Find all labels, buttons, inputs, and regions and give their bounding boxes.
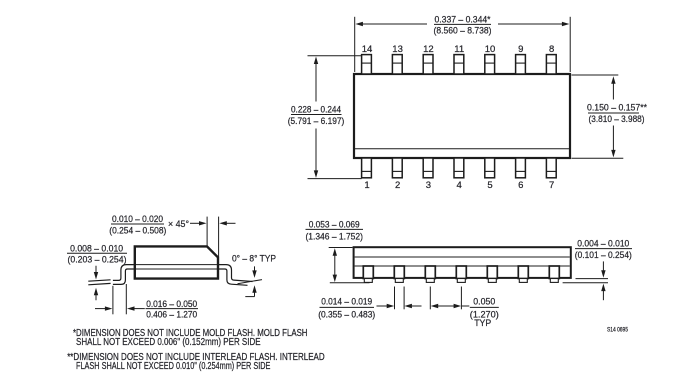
svg-text:0.008 – 0.010: 0.008 – 0.010 <box>70 242 123 253</box>
svg-text:9: 9 <box>518 44 523 55</box>
height dimension 0.053-0.069 <box>329 248 370 283</box>
svg-text:8: 8 <box>549 44 554 55</box>
svg-text:11: 11 <box>454 44 464 55</box>
svg-text:0.406 – 1.270: 0.406 – 1.270 <box>146 309 197 320</box>
footnotes <box>67 328 325 372</box>
right dimension 0.150-0.157 <box>572 75 624 158</box>
svg-text:3: 3 <box>426 180 431 191</box>
svg-text:12: 12 <box>423 44 434 55</box>
package body (top view) <box>354 74 570 158</box>
pin numbers bottom row <box>364 180 554 191</box>
svg-text:(0.101 – 0.254): (0.101 – 0.254) <box>575 249 632 260</box>
left dimension 0.228-0.244 <box>308 56 362 179</box>
top pins 14..8 <box>362 55 557 74</box>
package body (side view) <box>354 247 571 278</box>
svg-text:0° – 8° TYP: 0° – 8° TYP <box>232 254 276 264</box>
svg-text:10: 10 <box>485 44 496 55</box>
svg-text:0.016 – 0.050: 0.016 – 0.050 <box>146 298 197 309</box>
top width dimension 0.337-0.344 <box>355 17 571 72</box>
bottom pins 1..7 <box>362 158 557 178</box>
svg-text:(3.810 – 3.988): (3.810 – 3.988) <box>589 113 645 124</box>
svg-text:S14 0695: S14 0695 <box>607 327 629 333</box>
svg-text:SHALL NOT EXCEED 0.006" (0.152: SHALL NOT EXCEED 0.006" (0.152mm) PER SI… <box>76 337 261 348</box>
svg-text:0.228 – 0.244: 0.228 – 0.244 <box>291 103 341 114</box>
svg-text:(0.355 – 0.483): (0.355 – 0.483) <box>318 308 375 319</box>
tilted foot segment (0-8 deg) <box>88 280 110 281</box>
svg-text:FLASH SHALL NOT EXCEED 0.010": FLASH SHALL NOT EXCEED 0.010" (0.254mm) … <box>76 361 271 372</box>
lead plane lines through body <box>135 264 218 266</box>
svg-text:2: 2 <box>395 180 400 191</box>
body cross-section with 45deg chamfer <box>135 246 218 278</box>
svg-text:(8.560 – 8.738): (8.560 – 8.738) <box>434 25 492 36</box>
svg-text:0.050: 0.050 <box>473 295 495 306</box>
svg-text:4: 4 <box>457 180 462 191</box>
svg-text:TYP: TYP <box>474 317 491 328</box>
lead width dimension 0.014-0.019 <box>377 287 422 310</box>
svg-text:5: 5 <box>487 180 492 191</box>
standoff dimension 0.004-0.010 <box>563 261 608 300</box>
svg-text:× 45°: × 45° <box>168 218 189 229</box>
svg-text:0.004 – 0.010: 0.004 – 0.010 <box>577 238 629 249</box>
svg-text:0.014 – 0.019: 0.014 – 0.019 <box>321 295 372 306</box>
foot length dimension 0.016-0.050 <box>95 284 145 314</box>
side view leads <box>363 266 559 282</box>
pitch dimension 0.050 TYP <box>430 287 469 310</box>
right lead (gull wing) <box>218 265 262 286</box>
svg-text:(5.791 – 6.197): (5.791 – 6.197) <box>288 115 345 126</box>
svg-text:0.150 – 0.157**: 0.150 – 0.157** <box>587 102 647 113</box>
svg-text:1: 1 <box>364 180 369 191</box>
svg-text:7: 7 <box>549 180 554 191</box>
svg-text:(0.203 – 0.254): (0.203 – 0.254) <box>68 254 127 265</box>
svg-text:(1.346 – 1.752): (1.346 – 1.752) <box>305 230 363 241</box>
svg-text:13: 13 <box>392 44 403 55</box>
svg-text:0.010 – 0.020: 0.010 – 0.020 <box>112 213 163 224</box>
pin numbers top row <box>362 44 555 55</box>
svg-text:0.053 – 0.069: 0.053 – 0.069 <box>309 218 360 229</box>
svg-text:0.337 – 0.344*: 0.337 – 0.344* <box>435 13 491 24</box>
lead thickness dimension 0.008-0.010 <box>68 242 127 264</box>
svg-text:6: 6 <box>518 180 523 191</box>
chamfer dimension 0.010-0.020 x45 <box>190 217 236 257</box>
angle reference line <box>238 280 263 284</box>
svg-text:14: 14 <box>362 44 373 55</box>
svg-text:(0.254 – 0.508): (0.254 – 0.508) <box>109 225 166 236</box>
left lead (gull wing) <box>88 265 135 285</box>
